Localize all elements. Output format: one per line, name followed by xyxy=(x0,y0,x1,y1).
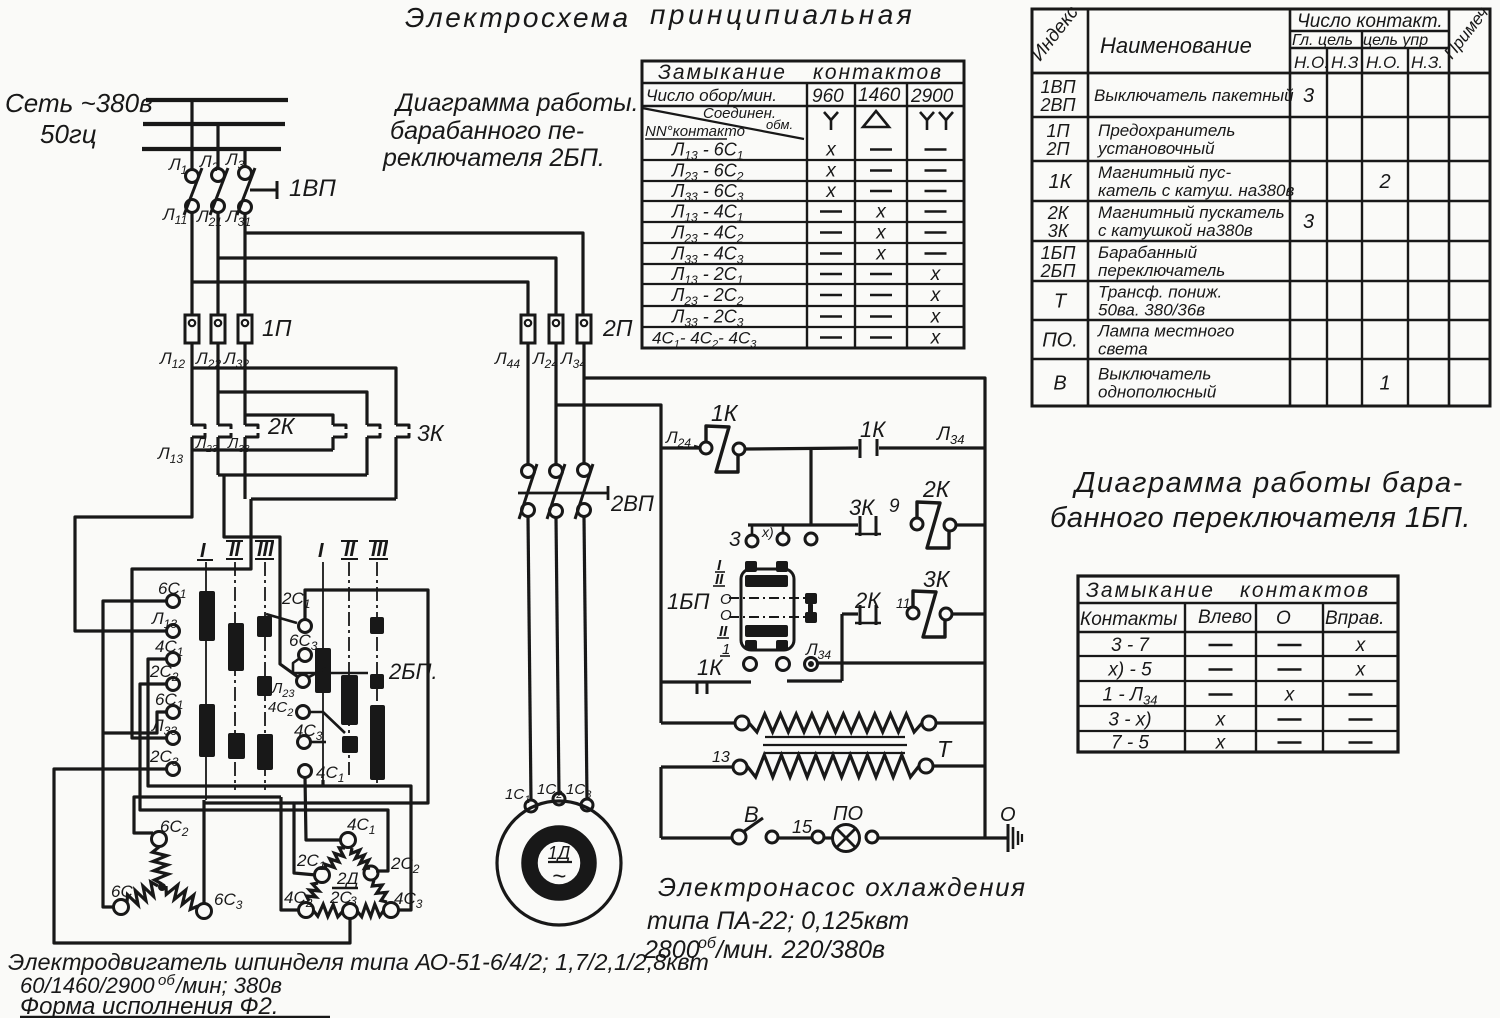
wire: 6С2 net xyxy=(134,797,281,833)
svg-text:Выключатель пакетный: Выключатель пакетный xyxy=(1094,86,1294,105)
svg-text:4С1- 4С2- 4С3: 4С1- 4С2- 4С3 xyxy=(652,329,757,351)
svg-text:х: х xyxy=(930,285,942,306)
svg-text:принципиальная: принципиальная xyxy=(650,0,915,30)
svg-text:III: III xyxy=(257,539,274,561)
svg-text:Магнитный пускатель: Магнитный пускатель xyxy=(1098,203,1285,222)
svg-text:2К: 2К xyxy=(922,476,951,502)
svg-text:х: х xyxy=(875,244,887,265)
svg-text:3К: 3К xyxy=(849,495,875,520)
svg-text:Л13 - 4С1: Л13 - 4С1 xyxy=(671,202,743,225)
wire: Л34 drum terminal to right bus xyxy=(818,661,986,664)
svg-text:Гл. цель: Гл. цель xyxy=(1292,32,1353,49)
svg-text:1П: 1П xyxy=(262,315,292,341)
svg-text:1К: 1К xyxy=(860,417,886,442)
svg-text:Диаграмма работы.: Диаграмма работы. xyxy=(393,89,639,117)
drum 2БП left grid column lines xyxy=(205,562,207,800)
svg-text:2: 2 xyxy=(1378,171,1390,193)
drum 2БП right terminals 2С1 6С3 Л23 4С2 4С3 4С1 xyxy=(299,620,312,633)
wire: 2С1 net around grid xyxy=(294,590,428,875)
winding star 6С (Y) xyxy=(152,832,167,847)
svg-text:III: III xyxy=(371,539,388,561)
svg-text:2БП: 2БП xyxy=(1040,261,1077,281)
wire: node Л33 xyxy=(243,437,246,499)
svg-text:Выключатель: Выключатель xyxy=(1098,365,1211,384)
svg-text:Предохранитель: Предохранитель xyxy=(1098,121,1235,140)
svg-text:х) - 5: х) - 5 xyxy=(1107,660,1152,681)
svg-text:ПО.: ПО. xyxy=(1042,330,1078,352)
svg-text:2Д: 2Д xyxy=(336,869,358,888)
svg-text:3К: 3К xyxy=(1048,221,1070,241)
svg-text:х: х xyxy=(930,307,942,328)
svg-text:Н.З: Н.З xyxy=(1331,53,1359,72)
svg-text:3: 3 xyxy=(350,894,357,908)
svg-text:3К: 3К xyxy=(417,420,445,446)
wire: node Л23 xyxy=(216,437,219,475)
svg-text:2П: 2П xyxy=(602,315,633,341)
wire: phase2 top branch to 3К contact xyxy=(218,392,367,425)
winding star 4С/2С with taps xyxy=(341,833,356,848)
svg-text:света: света xyxy=(1098,340,1148,359)
drum 2БП right grid column lines xyxy=(322,562,324,780)
svg-text:Диаграмма работы бара-: Диаграмма работы бара- xyxy=(1072,467,1464,499)
svg-text:~: ~ xyxy=(552,863,566,890)
drum 1БП bottom terminals xyxy=(744,658,757,671)
wire: branch Л31 to fuse 2П (phase 3) xyxy=(245,233,583,315)
svg-text:I: I xyxy=(318,540,324,562)
svg-text:барабанного пе-: барабанного пе- xyxy=(390,117,584,145)
wire: phase1 top branch to 3К contact xyxy=(192,368,396,425)
svg-text:Магнитный пус-: Магнитный пус- xyxy=(1098,163,1232,182)
svg-text:1ВП: 1ВП xyxy=(1040,77,1076,97)
wire: branch down to interlock row xyxy=(809,448,812,525)
wire: node Л13 joining 2К/3К outputs xyxy=(190,437,193,450)
svg-text:960: 960 xyxy=(812,86,844,107)
svg-text:7 - 5: 7 - 5 xyxy=(1111,733,1149,754)
svg-text:О: О xyxy=(720,607,732,624)
svg-text:Т: Т xyxy=(1054,291,1068,313)
svg-text:1БП: 1БП xyxy=(667,589,710,614)
wire: branch Л34 to control circuit right bus xyxy=(584,378,985,838)
wire: three phase bus lines xyxy=(146,98,288,102)
svg-text:О: О xyxy=(720,591,732,608)
svg-text:Электросхема: Электросхема xyxy=(405,2,631,33)
svg-text:2ВП: 2ВП xyxy=(1039,95,1076,115)
wire: branch Л21 to fuse 2П (phase 2) xyxy=(218,258,556,315)
svg-text:2БП.: 2БП. xyxy=(388,659,438,684)
wire: branch Л24 to control circuit left rail xyxy=(556,405,661,723)
svg-text:х: х xyxy=(1355,635,1367,656)
svg-text:х): х) xyxy=(761,524,774,540)
svg-text:Замыкание: Замыкание xyxy=(1086,579,1215,602)
svg-text:Замыкание: Замыкание xyxy=(658,61,787,84)
wire: 1К coil to aux contact 1К xyxy=(746,448,858,449)
winding 2С2-4С3 xyxy=(372,880,387,902)
svg-text:3: 3 xyxy=(1303,211,1314,233)
svg-text:реключателя 2БП.: реключателя 2БП. xyxy=(382,144,605,172)
svg-text:х: х xyxy=(875,202,887,223)
svg-text:Контакты: Контакты xyxy=(1080,609,1177,630)
svg-text:х: х xyxy=(1215,710,1227,731)
symbol: delta xyxy=(863,111,889,127)
svg-text:2К: 2К xyxy=(1047,203,1070,223)
motor 1Д terminals 1С1 1С2 1С3 xyxy=(525,800,537,812)
svg-text:катель с катуш. на380в: катель с катуш. на380в xyxy=(1098,181,1295,200)
svg-text:II: II xyxy=(229,539,241,561)
svg-text:Форма исполнения Ф2.: Форма исполнения Ф2. xyxy=(20,993,279,1018)
symbol: double star xyxy=(926,120,929,130)
svg-text:1ВП: 1ВП xyxy=(289,175,336,202)
svg-text:3К: 3К xyxy=(923,566,951,592)
svg-text:Н.О.: Н.О. xyxy=(1294,53,1329,72)
wire: 2С2 net from left terminal xyxy=(140,684,388,871)
drum 2БП left grid contact bars xyxy=(199,591,215,641)
svg-text:х: х xyxy=(825,181,837,202)
table: Замыкание контактов (2БП speeds) xyxy=(642,61,964,348)
svg-text:цель упр: цель упр xyxy=(1363,32,1428,49)
svg-text:Электродвигатель шпинделя тип: Электродвигатель шпинделя типа АО-51-6/4… xyxy=(8,949,709,975)
wire: 2ВП to motor terminals xyxy=(528,517,531,801)
wire: 2С3 net loop xyxy=(54,769,350,943)
svg-text:В: В xyxy=(744,802,759,827)
svg-text:х: х xyxy=(825,161,837,182)
table: Замыкание контактов (1БП) xyxy=(1078,576,1398,752)
switch 2ВП three-pole xyxy=(522,465,535,478)
switch 1ВП three-pole xyxy=(186,170,199,183)
svg-text:Число контакт.: Число контакт. xyxy=(1297,11,1443,32)
svg-text:Л13 - 2С1: Л13 - 2С1 xyxy=(671,264,743,287)
svg-text:х: х xyxy=(930,328,942,349)
svg-text:II: II xyxy=(344,539,356,561)
svg-text:Вправ.: Вправ. xyxy=(1325,608,1384,629)
svg-text:Трансф. пониж.: Трансф. пониж. xyxy=(1098,283,1222,302)
wire: phase3 top branch to 3К contact xyxy=(245,415,333,425)
svg-text:с катушкой на380в: с катушкой на380в xyxy=(1098,221,1253,240)
svg-text:О: О xyxy=(1000,804,1016,826)
svg-text:Л23 - 4С2: Л23 - 4С2 xyxy=(671,223,744,246)
wire: right grid terminal stubs xyxy=(266,614,297,623)
drum 2БП left terminals 6С1 Л13 4С1 2С2 6С1 Л33 2С3 xyxy=(167,595,180,608)
svg-text:I: I xyxy=(200,540,206,562)
svg-text:Л13 - 6С1: Л13 - 6С1 xyxy=(671,140,743,163)
svg-text:О: О xyxy=(1276,608,1291,629)
svg-text:/мин. 220/380в: /мин. 220/380в xyxy=(714,936,885,964)
svg-text:13: 13 xyxy=(712,749,730,766)
wire: 4С2 net xyxy=(281,797,300,910)
transformer Т primary winding xyxy=(661,721,735,724)
wire: fuse 2П outputs down xyxy=(526,343,529,464)
svg-text:2900: 2900 xyxy=(910,86,954,107)
svg-text:обм.: обм. xyxy=(766,117,793,132)
svg-text:х: х xyxy=(930,264,942,285)
fuse 1П (three) xyxy=(185,315,199,343)
svg-text:об: об xyxy=(158,972,175,989)
svg-text:NN°контакто: NN°контакто xyxy=(645,123,745,140)
transformer core xyxy=(765,736,905,738)
wire: drops from bus to switch 1ВП xyxy=(190,100,193,169)
svg-text:Н.О.: Н.О. xyxy=(1366,53,1401,72)
wire: branch Л11 to fuse 2П (phase 1) xyxy=(192,282,528,315)
svg-text:Т: Т xyxy=(937,736,953,762)
svg-text:х: х xyxy=(825,140,837,161)
wire: Л33 run to drum terminal xyxy=(132,499,251,738)
svg-text:50ва. 380/36в: 50ва. 380/36в xyxy=(1098,301,1205,320)
motor 1Д xyxy=(497,801,621,925)
svg-text:Л23 - 2С2: Л23 - 2С2 xyxy=(671,285,744,308)
drum 2БП right grid contact bars xyxy=(315,648,331,693)
contact 3К main (three poles) xyxy=(333,425,346,429)
svg-text:Лампа местного: Лампа местного xyxy=(1097,322,1234,341)
svg-text:контактов: контактов xyxy=(1240,579,1370,602)
svg-text:1К: 1К xyxy=(711,400,739,426)
svg-text:однополюсный: однополюсный xyxy=(1098,383,1217,402)
wire: 4С1 right terminal to star xyxy=(305,777,342,840)
node 3 х) pushbutton terminals xyxy=(748,523,858,526)
svg-text:установочный: установочный xyxy=(1097,139,1215,158)
svg-text:переключатель: переключатель xyxy=(1098,261,1225,280)
svg-text:В: В xyxy=(1053,373,1066,395)
svg-text:15: 15 xyxy=(792,817,813,837)
svg-text:Влево: Влево xyxy=(1198,607,1252,628)
wire: 6С1 second terminal stub xyxy=(103,712,167,733)
svg-text:2К: 2К xyxy=(267,413,296,439)
svg-text:1К: 1К xyxy=(697,655,723,680)
wire: phase drops to fuses 1П xyxy=(190,213,193,315)
svg-text:Число обор/мин.: Число обор/мин. xyxy=(646,86,777,105)
svg-text:х: х xyxy=(875,223,887,244)
svg-text:1460: 1460 xyxy=(858,85,901,106)
svg-text:3: 3 xyxy=(1303,85,1314,107)
svg-text:1БП: 1БП xyxy=(1041,243,1077,263)
svg-text:2ВП: 2ВП xyxy=(610,491,654,516)
svg-text:3 - х): 3 - х) xyxy=(1108,710,1151,731)
svg-text:3 - 7: 3 - 7 xyxy=(1111,635,1150,656)
wire: Л13 run to drum terminal xyxy=(75,450,192,631)
svg-text:типа ПА-22; 0,125квт: типа ПА-22; 0,125квт xyxy=(647,907,909,935)
svg-text:Наименование: Наименование xyxy=(1100,33,1252,58)
svg-text:50гц: 50гц xyxy=(40,119,97,149)
svg-text:1П: 1П xyxy=(1046,121,1070,141)
svg-text:Н.З.: Н.З. xyxy=(1411,53,1443,72)
wire: 3К branch down to Л34 line xyxy=(840,614,843,681)
svg-text:1К: 1К xyxy=(1049,171,1073,193)
svg-text:1Д: 1Д xyxy=(548,843,571,863)
contact 2К main (three poles) xyxy=(192,425,205,429)
svg-text:ПО: ПО xyxy=(833,803,863,825)
svg-text:Барабанный: Барабанный xyxy=(1098,243,1198,262)
svg-text:Электронасос охлаждения: Электронасос охлаждения xyxy=(658,872,1027,902)
svg-text:х: х xyxy=(1284,685,1296,706)
switch В and lamp ПО row xyxy=(661,836,732,839)
svg-text:3: 3 xyxy=(729,528,741,551)
svg-text:2П: 2П xyxy=(1045,139,1070,159)
table: component list (Индекс/Наименование/Число контакт) xyxy=(1032,9,1490,406)
contact 1К aux (NO) xyxy=(859,439,862,458)
svg-text:Л33 - 2С3: Л33 - 2С3 xyxy=(671,307,744,330)
svg-text:1: 1 xyxy=(1379,373,1390,395)
fuse 2П (three) xyxy=(521,315,535,343)
wire: 4С3 net to grid xyxy=(321,780,324,786)
svg-text:9: 9 xyxy=(889,496,900,517)
svg-text:х: х xyxy=(1215,733,1227,754)
wire: 4С1 net from left terminal xyxy=(148,659,411,910)
svg-text:контактов: контактов xyxy=(813,61,943,84)
svg-text:Сеть ~380в: Сеть ~380в xyxy=(5,88,153,118)
svg-text:банного переключателя 1БП.: банного переключателя 1БП. xyxy=(1050,502,1471,534)
wire: fuse outputs down to 2К contacts xyxy=(190,343,193,425)
wire: 6С3 net xyxy=(202,800,205,905)
svg-text:х: х xyxy=(1355,660,1367,681)
wire: 6С1 net xyxy=(103,601,167,907)
symbol: star xyxy=(830,120,833,130)
wire: Л23 run to drum terminal xyxy=(224,475,298,677)
wire: secondary to lamp row left loop xyxy=(659,767,662,838)
